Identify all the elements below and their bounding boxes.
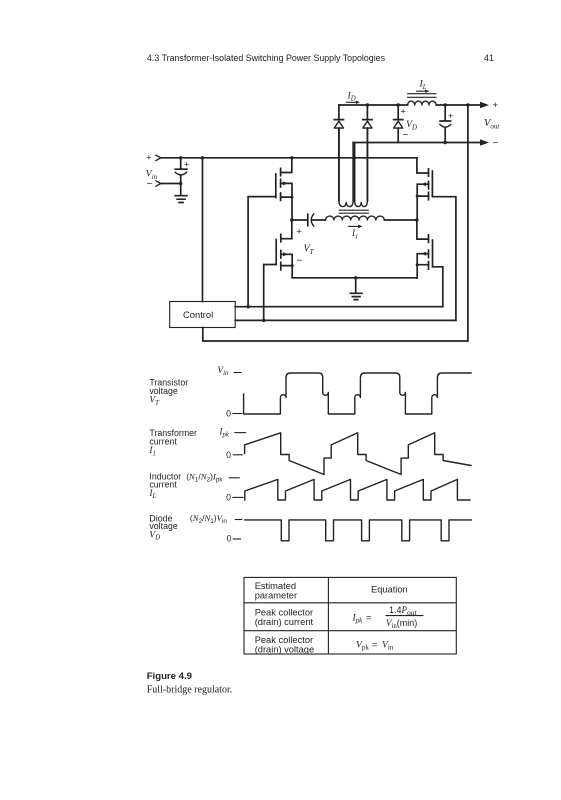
svg-text:Estimated: Estimated	[255, 581, 296, 591]
table frame	[244, 577, 456, 654]
wire: Vin + rail	[161, 157, 417, 159]
table header: Equation	[371, 585, 408, 595]
diode D2 (rectifier, right)	[363, 105, 372, 201]
waveform trace: transformer current I1	[245, 433, 471, 475]
node: Vin + input arrow	[146, 152, 161, 162]
diode D3 (freewheeling diode VD)	[394, 105, 403, 143]
svg-text:0: 0	[227, 534, 232, 544]
node: + output junction dots on top rail	[366, 103, 470, 106]
transistor Q4 (lower right MOSFET)	[416, 220, 433, 278]
figure caption	[147, 671, 233, 696]
table row 1: Peak collector (drain) current	[255, 608, 314, 628]
wire: output - rail (bottom)	[353, 141, 481, 144]
waveform axis label: Vin level	[217, 366, 241, 377]
table row 1 equation: Ipk = 1.4Pout / Vin(min)	[352, 605, 424, 630]
ground (input)	[175, 184, 187, 203]
label + VT - (primary voltage)	[297, 227, 315, 267]
svg-text:0: 0	[226, 450, 231, 460]
svg-text:=: =	[372, 639, 377, 649]
inductor L1 (output choke)	[407, 94, 436, 105]
waveform label: Diode voltage VD	[149, 514, 177, 542]
table row 2: Peak collector (drain) voltage	[255, 635, 314, 655]
label VD with + and -	[401, 107, 417, 142]
wire: Vin - lead	[161, 183, 181, 185]
waveform axis label: 0 level (VD)	[227, 534, 242, 544]
running header text	[147, 53, 494, 63]
transformer T1 core	[339, 210, 369, 213]
svg-text:(drain) current: (drain) current	[255, 617, 314, 627]
waveform label: Inductor current IL	[148, 471, 181, 500]
table header: Estimated parameter	[255, 581, 297, 601]
node: Vout+ arrow	[480, 100, 499, 111]
svg-text:Figure 4.9: Figure 4.9	[147, 671, 192, 682]
label Vin	[146, 169, 158, 181]
wire: control drive line 1 (Q1/Q4 gates)	[235, 305, 443, 308]
label ID with current arrow	[346, 90, 360, 104]
wire: Q4 gate lead	[433, 267, 443, 307]
transistor Q3 (lower left MOSFET)	[276, 220, 294, 278]
waveform label: Transistor voltage VT	[149, 377, 188, 407]
waveform trace: diode voltage VD	[245, 520, 471, 541]
svg-text:parameter: parameter	[255, 591, 297, 601]
svg-text:Peak collector: Peak collector	[255, 635, 313, 645]
svg-text:+: +	[448, 111, 453, 121]
svg-text:+: +	[493, 100, 499, 111]
node: Vin - input arrow	[147, 179, 161, 190]
wire: bridge bottom rail	[292, 277, 417, 279]
waveform trace: inductor current IL	[245, 479, 470, 500]
diode D1 (rectifier, left)	[334, 105, 343, 201]
waveform axis label: Ipk level	[218, 428, 246, 439]
wire: Q3 gate lead	[264, 265, 277, 321]
wire: feedback from Vout+ to control	[203, 105, 468, 341]
ground (bridge)	[350, 276, 362, 300]
waveform trace: transistor voltage VT	[244, 373, 471, 414]
waveform axis label: (N2/N1)Vin level	[190, 513, 242, 525]
waveform axis label: 0 level (IL)	[226, 493, 244, 503]
wire: Vin rail to control box	[201, 156, 204, 301]
table row 2 equation: Vpk = Vin	[356, 639, 394, 651]
svg-text:=: =	[366, 612, 371, 622]
wire: Q2 gate lead	[432, 197, 456, 321]
transistor Q1 (upper left MOSFET)	[276, 156, 294, 220]
label Vout	[484, 118, 500, 131]
svg-text:(drain) voltage: (drain) voltage	[255, 645, 314, 655]
waveform axis label: 0 level (VT)	[226, 409, 242, 419]
node: primary left junction	[290, 218, 293, 221]
transistor Q2 (upper right MOSFET)	[416, 158, 433, 220]
svg-text:−: −	[297, 256, 303, 267]
svg-text:current: current	[149, 480, 177, 490]
waveform axis label: 0 level (I1)	[226, 450, 243, 460]
svg-text:41: 41	[484, 53, 494, 63]
svg-text:+: +	[184, 160, 189, 170]
waveform axis label: (N1/N2)Ipk level	[186, 471, 240, 483]
node: primary right junction	[415, 218, 418, 221]
capacitor C1 (output filter)	[440, 105, 453, 143]
svg-text:+: +	[297, 227, 302, 237]
svg-text:Full-bridge regulator.: Full-bridge regulator.	[147, 685, 233, 696]
wire: output + rail (top)	[339, 104, 481, 106]
svg-text:−: −	[493, 138, 499, 149]
svg-text:+: +	[146, 152, 151, 162]
svg-text:Control: Control	[183, 309, 213, 320]
svg-text:Equation: Equation	[371, 585, 408, 595]
svg-text:0: 0	[226, 493, 231, 503]
svg-text:+: +	[401, 107, 406, 117]
transformer T1 secondary winding	[339, 128, 368, 207]
wire: control drive line 2 (Q3/Q2 gates)	[235, 319, 456, 322]
svg-text:Peak collector: Peak collector	[255, 608, 313, 618]
node: Vout- arrow	[480, 138, 499, 149]
transformer T1 primary winding	[326, 216, 417, 220]
op-amp U1 control box	[170, 302, 236, 328]
svg-text:0: 0	[226, 409, 231, 419]
label I1 with current arrow	[348, 225, 363, 241]
capacitor C3 (series DC-blocking)	[292, 214, 326, 226]
label IL with current arrow	[416, 79, 430, 93]
wire: Q1 gate lead	[248, 197, 276, 307]
svg-text:current: current	[149, 437, 177, 447]
svg-text:−: −	[403, 130, 409, 141]
svg-text:4.3 Transformer-Isolated Switc: 4.3 Transformer-Isolated Switching Power…	[147, 53, 385, 63]
svg-text:voltage: voltage	[149, 386, 177, 396]
waveform label: Transformer current I1	[148, 428, 197, 458]
capacitor C2 (input filter)	[175, 156, 189, 185]
